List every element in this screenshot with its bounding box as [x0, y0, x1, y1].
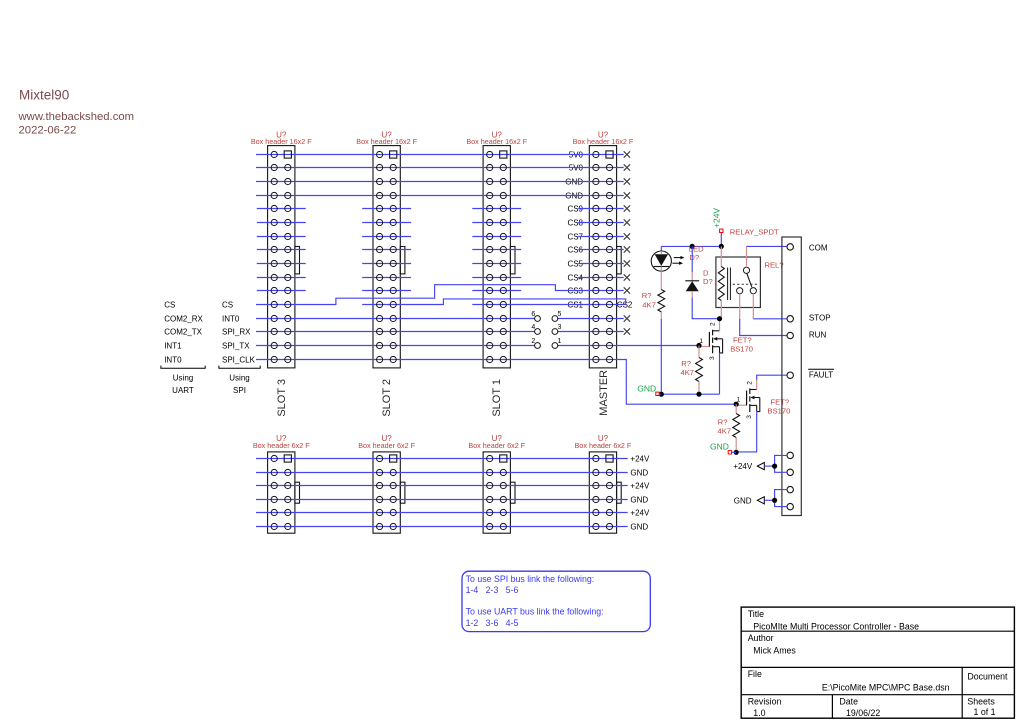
connector U? box header 6x2 F #4: [589, 452, 616, 533]
svg-text:LED: LED: [689, 244, 704, 253]
wire row 16 SPI_CLK to FET2 gate: [256, 360, 736, 405]
wire +24V to rail: [720, 233, 722, 247]
svg-text:STOP: STOP: [809, 314, 831, 323]
svg-text:R?: R?: [718, 418, 728, 427]
connector U? box header 16x2 F (MASTER): [589, 146, 616, 368]
stub wires rows 5-10 on master: [578, 208, 624, 210]
svg-text:COM: COM: [809, 243, 828, 252]
bracket Using SPI: [219, 366, 260, 369]
svg-text:BS170: BS170: [768, 407, 791, 416]
svg-text:SPI: SPI: [233, 386, 246, 395]
svg-text:www.thebackshed.com: www.thebackshed.com: [18, 111, 135, 123]
svg-text:4K7: 4K7: [680, 368, 694, 377]
svg-text:Mixtel90: Mixtel90: [19, 88, 69, 103]
svg-text:FAULT: FAULT: [809, 371, 833, 380]
svg-text:GND: GND: [630, 469, 648, 478]
svg-text:FET?: FET?: [771, 398, 790, 407]
junction resistor FET1 GND: [696, 392, 701, 397]
power pin marker +24V: [720, 229, 723, 232]
slot3 CS wire to master CS3: [256, 285, 624, 305]
connector U? box header 16x2 F (SLOT 3): [268, 146, 295, 368]
slot2 CS wire to master CS2: [362, 299, 626, 305]
wire FET2 source to GND: [736, 411, 757, 452]
wire row 15 SPI_TX to FET1 gate: [558, 345, 699, 347]
output connector box: [782, 237, 801, 516]
relay mechanical link dashed: [733, 283, 758, 285]
svg-text:Box header 6x2 F: Box header 6x2 F: [358, 441, 415, 450]
connector pins 16x2: [271, 151, 613, 363]
GND rail left: [661, 393, 719, 395]
svg-text:R?: R?: [642, 291, 652, 300]
svg-text:+24V: +24V: [630, 509, 650, 518]
connector pins 6x2: [271, 455, 613, 530]
wire NO to STOP: [753, 318, 787, 320]
wire diode to FET1 drain: [692, 298, 717, 319]
svg-text:SPI_TX: SPI_TX: [222, 342, 250, 351]
relay core bars: [727, 268, 729, 301]
svg-text:MASTER: MASTER: [598, 370, 610, 416]
svg-text:SPI_CLK: SPI_CLK: [222, 356, 256, 365]
connector U? box header 6x2 F #3: [483, 452, 510, 533]
svg-text:File: File: [748, 669, 762, 679]
wire row 13 right of link: [558, 318, 624, 320]
svg-text:BS170: BS170: [730, 345, 753, 354]
bracket Using UART: [161, 366, 205, 369]
svg-text:Date: Date: [839, 696, 858, 706]
title block text: [748, 609, 1008, 718]
wire common to COM: [747, 245, 788, 247]
relay switch lever: [747, 274, 752, 288]
svg-text:GND: GND: [637, 383, 656, 393]
svg-text:SPI_RX: SPI_RX: [222, 328, 251, 337]
no-connect X marks on master: [624, 151, 630, 334]
wire row 14 left of link: [256, 331, 535, 333]
wire row 15 left of link: [256, 345, 535, 347]
svg-text:1-2 3-6 4-5: 1-2 3-6 4-5: [466, 618, 519, 628]
svg-text:FET?: FET?: [733, 335, 752, 344]
svg-text:GND: GND: [734, 496, 752, 505]
lead resistor to wire: [660, 312, 662, 319]
relay NO contact: [750, 288, 756, 294]
transistor FET? BS170 #1: [699, 322, 723, 360]
power labels +24V/GND at bottom headers: [630, 455, 650, 532]
svg-text:Mick Ames: Mick Ames: [753, 646, 796, 656]
svg-text:5: 5: [558, 311, 562, 318]
link pin numbers 6 5 4 3 2 1: [531, 311, 561, 345]
svg-text:CS: CS: [222, 301, 233, 310]
svg-text:D?: D?: [689, 253, 699, 262]
svg-text:INT0: INT0: [222, 315, 240, 324]
svg-text:UART: UART: [172, 386, 194, 395]
svg-text:To use UART bus link the follo: To use UART bus link the following:: [466, 607, 604, 617]
svg-text:REL?: REL?: [765, 260, 784, 269]
svg-text:To use SPI bus link the follow: To use SPI bus link the following:: [466, 574, 595, 584]
LED D? indicator: [660, 246, 662, 251]
svg-text:1 of 1: 1 of 1: [974, 707, 996, 717]
title block frame: [741, 607, 1014, 718]
svg-text:PicoMIte Multi Processor Contr: PicoMIte Multi Processor Controller - Ba…: [753, 622, 919, 632]
svg-text:INT1: INT1: [164, 342, 182, 351]
svg-text:COM2_TX: COM2_TX: [164, 328, 202, 337]
lead gate resistor 2 top: [735, 404, 737, 413]
svg-text:COM2_RX: COM2_RX: [164, 315, 203, 324]
svg-text:3: 3: [558, 324, 562, 331]
wire resistor to GND rail: [660, 319, 662, 394]
svg-text:Box header 16x2 F: Box header 16x2 F: [466, 137, 527, 146]
svg-text:Box header 6x2 F: Box header 6x2 F: [575, 441, 632, 450]
wire FET1 source to GND rail: [719, 353, 721, 395]
svg-text:1-4 2-3 5-6: 1-4 2-3 5-6: [466, 585, 519, 595]
svg-text:1: 1: [558, 338, 562, 345]
connector U? box header 16x2 F (SLOT 2): [373, 146, 400, 368]
bus wires rows 1-4 (5V0,5V0,GND,GND): [256, 154, 624, 156]
wire FET2 drain to FAULT: [757, 375, 787, 380]
junction FET1 drain / coil / diode: [717, 316, 722, 321]
svg-text:19/06/22: 19/06/22: [846, 708, 880, 718]
wire row 14 right of link: [558, 331, 624, 333]
svg-text:Box header 16x2 F: Box header 16x2 F: [356, 137, 417, 146]
junction at coil top: [719, 244, 724, 249]
relay NC contact: [737, 288, 743, 294]
junction FET2 gnd: [734, 450, 739, 455]
stub wires rows 5-11 on slots: [257, 208, 306, 210]
svg-text:SLOT 1: SLOT 1: [491, 379, 503, 417]
LED emission arrows: [674, 257, 681, 259]
connector U? box header 6x2 F #2: [373, 452, 400, 533]
flyback diode D?: [691, 246, 693, 272]
svg-text:Title: Title: [748, 609, 764, 619]
link pins circles: [535, 316, 558, 349]
svg-text:Box header 16x2 F: Box header 16x2 F: [573, 137, 634, 146]
svg-text:2022-06-22: 2022-06-22: [19, 124, 77, 136]
svg-text:+24V: +24V: [711, 208, 721, 228]
slot1 CS wire to master CS1: [472, 304, 609, 306]
svg-text:1.0: 1.0: [753, 708, 765, 718]
lead LED to resistor: [660, 271, 662, 289]
wire row 13 left of link: [256, 318, 535, 320]
output connector pins: [787, 244, 793, 510]
svg-text:2: 2: [747, 381, 754, 385]
svg-text:Sheets: Sheets: [967, 696, 995, 706]
svg-text:3: 3: [746, 415, 753, 419]
svg-text:SLOT 3: SLOT 3: [276, 379, 288, 417]
resistor R? 4K7 (FET1 gate): [696, 358, 703, 382]
svg-text:+24V: +24V: [630, 455, 650, 464]
relay common contact: [743, 267, 749, 273]
wire +24V rail: [661, 245, 721, 247]
svg-text:RELAY_SPDT: RELAY_SPDT: [730, 227, 779, 236]
svg-text:GND: GND: [630, 523, 648, 532]
resistor R? 4K7 (LED): [658, 290, 665, 312]
svg-text:+24V: +24V: [733, 462, 753, 471]
svg-text:D?: D?: [703, 277, 713, 286]
note box SPI/UART links: [462, 571, 650, 631]
resistor R? 4K7 (FET2 gate): [733, 414, 740, 438]
svg-text:4K7: 4K7: [642, 300, 656, 309]
svg-text:Author: Author: [748, 633, 774, 643]
svg-text:Using: Using: [173, 374, 193, 383]
svg-text:GND: GND: [630, 496, 648, 505]
connector U? box header 16x2 F (SLOT 1): [483, 146, 510, 368]
svg-text:R?: R?: [681, 359, 691, 368]
bottom header bus wires: [256, 458, 628, 460]
junction FET1 gate: [696, 343, 701, 348]
svg-text:+24V: +24V: [630, 482, 650, 491]
lead FET2 drain: [756, 380, 758, 390]
lead gate resistor 1 top: [698, 346, 700, 358]
svg-text:SLOT 2: SLOT 2: [381, 379, 393, 417]
junction at diode top: [690, 244, 695, 249]
wire NC to RUN: [740, 319, 787, 336]
svg-text:4K7: 4K7: [717, 427, 731, 436]
svg-text:E:\PicoMite MPC\MPC Base.dsn: E:\PicoMite MPC\MPC Base.dsn: [822, 682, 950, 692]
svg-text:GND: GND: [710, 442, 729, 452]
transistor FET? BS170 #2: [736, 381, 760, 419]
master pin labels 5V0/GND/CS9..CS1: [565, 151, 583, 310]
svg-text:CS: CS: [164, 301, 175, 310]
svg-text:Box header 6x2 F: Box header 6x2 F: [468, 441, 525, 450]
relay coil: [720, 246, 722, 266]
svg-text:RUN: RUN: [809, 330, 827, 339]
legend labels UART column: [164, 301, 203, 365]
junction FET2 gate: [734, 402, 739, 407]
svg-text:Revision: Revision: [748, 696, 782, 706]
svg-text:Document: Document: [967, 672, 1008, 682]
legend labels SPI column: [222, 301, 256, 365]
svg-text:Box header 16x2 F: Box header 16x2 F: [251, 137, 312, 146]
svg-text:2: 2: [709, 322, 716, 326]
svg-text:3: 3: [709, 356, 716, 360]
svg-text:Box header 6x2 F: Box header 6x2 F: [253, 441, 310, 450]
svg-text:Using: Using: [229, 374, 249, 383]
svg-text:INT0: INT0: [164, 356, 182, 365]
connector U? box header 6x2 F #1: [268, 452, 295, 533]
relay REL? box: [716, 257, 761, 308]
lead FET1 drain: [719, 319, 721, 331]
junction resistor LED GND: [659, 392, 664, 397]
